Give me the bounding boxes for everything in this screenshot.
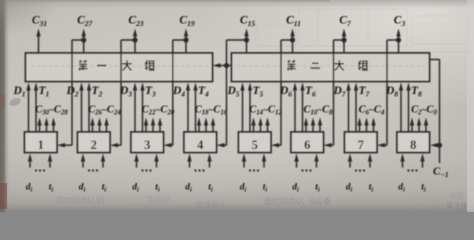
wire T7: group-propagate from block 7 to big group box bbox=[354, 83, 358, 133]
wire T8: group-propagate from block 8 to big group box bbox=[406, 83, 410, 133]
big group box U10: 16-bit BCLA 第二大组 bbox=[232, 53, 430, 82]
label C30~C28 bbox=[35, 105, 68, 117]
wire T3: group-propagate from block 3 to big group box bbox=[140, 83, 144, 133]
label C6~C4 bbox=[359, 105, 385, 117]
label: 第二大组 (second large group) bbox=[287, 60, 368, 70]
wires d_i, t_i inputs into block 3 bbox=[134, 154, 158, 172]
label C22~C20 bbox=[142, 105, 175, 117]
wires: internal carries C26~C24 out of block 2 bbox=[90, 118, 108, 133]
label T7 bbox=[359, 85, 370, 99]
label t_i under block 6 bbox=[315, 183, 320, 194]
wires: internal carries C22~C20 out of block 3 bbox=[144, 118, 162, 133]
wire/carry C11: output of big group box bbox=[271, 29, 295, 148]
wire D2: group-generate from block 2 to big group box bbox=[79, 83, 83, 133]
label C26~C24 bbox=[88, 105, 121, 117]
label T1 bbox=[39, 85, 50, 99]
wire/carry C15: output of big group box bbox=[217, 29, 250, 148]
label: 第一大组 (first large group) bbox=[79, 60, 155, 70]
label C15 bbox=[240, 15, 255, 29]
wire/carry C19: output of big group box bbox=[164, 29, 189, 148]
wires: internal carries C2~C0 out of block 8 bbox=[410, 118, 428, 133]
label D7 bbox=[332, 85, 345, 99]
adder block 6 (4-bit CLA group 6) bbox=[291, 132, 324, 153]
adder block 1 (4-bit CLA group 1) bbox=[25, 132, 58, 153]
wires: internal carries C10~C8 out of block 6 bbox=[304, 118, 322, 133]
label C23 bbox=[128, 15, 143, 29]
label C27 bbox=[77, 15, 92, 29]
label t_i under block 1 bbox=[49, 183, 54, 194]
wire/carry C23: output of big group box bbox=[110, 29, 138, 148]
wire: C15 carry from 2nd big group into 1st big group (junction) bbox=[213, 63, 232, 68]
label t_i under block 5 bbox=[263, 183, 268, 194]
label C18~C16 bbox=[195, 105, 228, 117]
label D2 bbox=[65, 85, 78, 99]
wires: internal carries C6~C4 out of block 7 bbox=[357, 118, 375, 133]
wire T4: group-propagate from block 4 to big group box bbox=[193, 83, 197, 133]
label D6 bbox=[279, 85, 292, 99]
label T3 bbox=[145, 85, 156, 99]
label C19 bbox=[179, 15, 194, 29]
wires d_i, t_i inputs into block 1 bbox=[28, 154, 52, 172]
label d_i under block 4 bbox=[185, 183, 192, 194]
adder block 8 (4-bit CLA group 8) bbox=[397, 132, 430, 153]
label C3 bbox=[394, 15, 406, 29]
wire T1: group-propagate from block 1 to big group box bbox=[34, 83, 38, 133]
wire D7: group-generate from block 7 to big group box bbox=[346, 83, 350, 133]
label d_i under block 5 bbox=[240, 183, 247, 194]
wires: internal carries C30~C28 out of block 1 bbox=[37, 118, 55, 133]
wire D1: group-generate from block 1 to big group box bbox=[26, 83, 30, 133]
wire/carry C3: output of big group box bbox=[377, 29, 401, 148]
label D3 bbox=[119, 85, 132, 99]
label t_i under block 7 bbox=[369, 183, 374, 194]
label d_i under block 7 bbox=[346, 183, 353, 194]
label C10~C8 bbox=[303, 105, 333, 117]
label D1 bbox=[12, 85, 25, 99]
wires d_i, t_i inputs into block 2 bbox=[81, 154, 105, 172]
label T8 bbox=[411, 85, 422, 99]
wires d_i, t_i inputs into block 6 bbox=[294, 154, 318, 172]
wire D4: group-generate from block 4 to big group box bbox=[186, 83, 190, 133]
adder block 7 (4-bit CLA group 7) bbox=[345, 132, 378, 153]
wire D5: group-generate from block 5 to big group box bbox=[240, 83, 244, 133]
wires d_i, t_i inputs into block 4 bbox=[187, 154, 211, 172]
wire D8: group-generate from block 8 to big group box bbox=[399, 83, 403, 133]
wire/carry C7: output of big group box bbox=[324, 29, 347, 148]
label t_i under block 2 bbox=[102, 183, 107, 194]
label t_i under block 3 bbox=[155, 183, 160, 194]
wire T2: group-propagate from block 2 to big group box bbox=[87, 83, 91, 133]
wires d_i, t_i inputs into block 5 bbox=[242, 154, 266, 172]
label D8 bbox=[385, 85, 398, 99]
label d_i under block 8 bbox=[398, 183, 405, 194]
wire/carry C31: output of big group box bbox=[36, 29, 40, 54]
label t_i under block 8 bbox=[421, 183, 426, 194]
wire/carry C27: output of big group box bbox=[57, 29, 86, 148]
label T6 bbox=[305, 85, 316, 99]
adder block 3 (4-bit CLA group 3) bbox=[131, 132, 164, 153]
wire T6: group-propagate from block 6 to big group box bbox=[300, 83, 304, 133]
adder block 4 (4-bit CLA group 4) bbox=[184, 132, 217, 153]
big group box U9: 16-bit BCLA 第一大组 bbox=[26, 53, 213, 82]
wires: internal carries C18~C16 out of block 4 bbox=[197, 118, 215, 133]
wires d_i, t_i inputs into block 7 bbox=[348, 154, 372, 172]
label T2 bbox=[92, 85, 103, 99]
label d_i under block 3 bbox=[132, 183, 139, 194]
label d_i under block 6 bbox=[292, 183, 299, 194]
wires: internal carries C14~C12 out of block 5 bbox=[251, 118, 269, 133]
label D5 bbox=[226, 85, 239, 99]
label C7 bbox=[339, 15, 351, 29]
wires d_i, t_i inputs into block 8 bbox=[400, 154, 424, 172]
label d_i under block 2 bbox=[79, 183, 86, 194]
label t_i under block 4 bbox=[208, 183, 213, 194]
wire T5: group-propagate from block 5 to big group box bbox=[248, 83, 252, 133]
label C14~C12 bbox=[249, 105, 282, 117]
label C31 bbox=[32, 15, 47, 29]
label C11 bbox=[286, 15, 301, 29]
wire D6: group-generate from block 6 to big group box bbox=[293, 83, 297, 133]
label C2~C0 bbox=[411, 105, 437, 117]
wire D3: group-generate from block 3 to big group box bbox=[133, 83, 137, 133]
label C-1 bbox=[433, 166, 449, 179]
label T4 bbox=[198, 85, 209, 99]
label d_i under block 1 bbox=[26, 183, 33, 194]
label T5 bbox=[253, 85, 264, 99]
label D4 bbox=[172, 85, 185, 99]
wire C-1: external carry-in to block 8 and big group 2 bbox=[430, 60, 443, 164]
adder block 2 (4-bit CLA group 2) bbox=[78, 132, 111, 153]
adder block 5 (4-bit CLA group 5) bbox=[239, 132, 272, 153]
